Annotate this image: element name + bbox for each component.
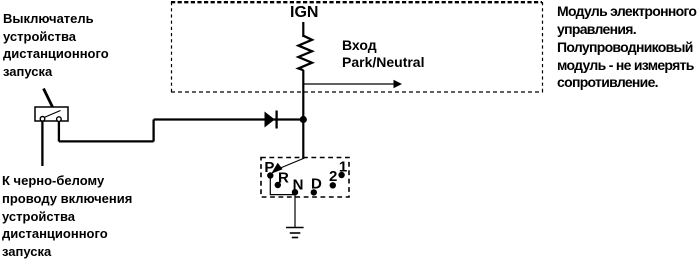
svg-text:P: P bbox=[264, 159, 274, 176]
svg-text:R: R bbox=[278, 170, 289, 187]
svg-text:2: 2 bbox=[329, 168, 337, 185]
svg-text:D: D bbox=[311, 176, 322, 193]
svg-text:1: 1 bbox=[339, 158, 347, 175]
svg-text:N: N bbox=[293, 176, 304, 193]
